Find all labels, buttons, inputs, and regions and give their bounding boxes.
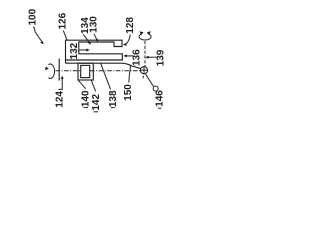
label 134 — [80, 17, 91, 34]
leader arrow for 100 — [33, 27, 44, 45]
horizontal dash-dot center axis line — [56, 70, 81, 72]
label 146 — [154, 90, 165, 107]
svg-text:142: 142 — [91, 94, 102, 111]
fork body (clevis) outline — [66, 40, 123, 63]
label 136 — [132, 49, 143, 66]
svg-text:136: 136 — [132, 49, 143, 66]
rotation arrow symbol left (about horizontal axis) — [45, 64, 55, 78]
label 130 — [88, 16, 99, 33]
leader line 142 — [91, 80, 96, 91]
leader arrow 134 — [83, 34, 91, 45]
dash below pivot on vertical axis — [142, 76, 144, 79]
outer box of lower unit — [78, 63, 93, 80]
svg-text:128: 128 — [125, 17, 136, 34]
leader arrow 128 — [123, 35, 131, 46]
leader line 140 — [78, 80, 85, 88]
label 124 — [55, 91, 66, 108]
leader line 126 — [63, 31, 67, 40]
pivot point circle-cross symbol — [140, 66, 148, 74]
base line of fork assembly — [66, 63, 141, 68]
svg-text:130: 130 — [88, 16, 99, 33]
pivot shaft line left — [58, 59, 60, 81]
dash below 138 — [111, 107, 115, 109]
label 138 — [108, 90, 119, 107]
svg-text:139: 139 — [156, 49, 167, 66]
label 128 — [125, 17, 136, 34]
label 126 — [58, 12, 69, 29]
svg-text:132: 132 — [69, 42, 80, 59]
arrow for 132 pointing right into slot — [78, 48, 89, 51]
svg-text:100: 100 — [28, 8, 39, 25]
leader arrow 124 pointing up — [58, 76, 63, 91]
svg-text:138: 138 — [108, 90, 119, 107]
label 139 — [156, 49, 167, 66]
label 132 inside fork — [69, 42, 80, 59]
svg-text:140: 140 — [81, 90, 92, 107]
leader arrow 130 — [94, 34, 98, 42]
label 142 — [91, 94, 102, 111]
svg-text:146: 146 — [154, 90, 165, 107]
leader arrow 136 pointing left — [123, 54, 133, 57]
svg-text:124: 124 — [55, 91, 66, 108]
leader arrow 139 pointing left — [145, 56, 157, 59]
leader curve 146 from pivot to small circle — [146, 74, 154, 86]
small circle marker 146 — [153, 86, 158, 91]
svg-text:150: 150 — [123, 84, 134, 101]
dash below 140 — [84, 107, 88, 109]
rotation arrow symbol top (about vertical axis) — [139, 31, 151, 40]
inner square of lower unit — [81, 65, 90, 77]
leader curve 150 from base line end — [129, 66, 131, 83]
vertical dashed axis line — [144, 41, 146, 66]
dash below 142 — [94, 111, 98, 113]
label 150 — [123, 84, 134, 101]
leader line 138 — [101, 63, 111, 89]
label 140 — [81, 90, 92, 107]
svg-text:126: 126 — [58, 12, 69, 29]
label 100 — [28, 8, 39, 25]
dash below 146 — [158, 107, 162, 109]
